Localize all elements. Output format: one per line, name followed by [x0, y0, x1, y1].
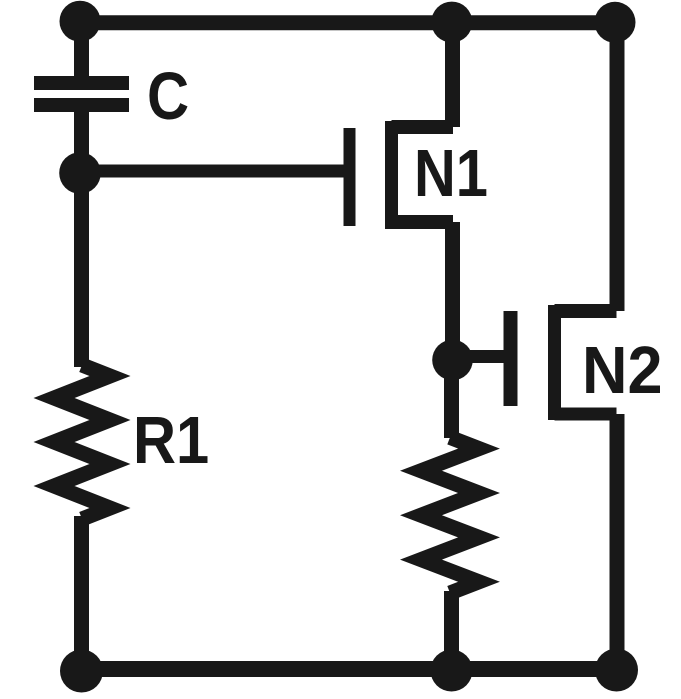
- wire: right rail upper (top rail to N2 drain): [610, 23, 625, 311]
- wire: N1 source to mid node: [445, 222, 460, 360]
- svg-text:N2: N2: [582, 333, 663, 408]
- wire: resistor to bottom rail: [444, 591, 459, 669]
- svg-text:R1: R1: [133, 403, 209, 478]
- svg-text:C: C: [147, 59, 189, 134]
- junction dot: mid node (N1 source / N2 gate / resistor): [432, 340, 473, 381]
- junction dot: top-middle (N1 drain): [431, 2, 472, 43]
- junction dot: top-right: [595, 2, 636, 43]
- wire: right rail lower (N2 source to bottom rail): [610, 414, 625, 669]
- resistor (unlabeled, N1 source to ground rail): [421, 437, 479, 593]
- transistor N1: [350, 121, 454, 229]
- wire: gate node to N1 gate: [81, 165, 345, 178]
- wire: left rail lower (R1 to bottom rail): [74, 516, 89, 669]
- wire: mid node to resistor: [444, 360, 459, 438]
- capacitor C: [34, 76, 129, 112]
- svg-text:N1: N1: [414, 136, 488, 211]
- wire: capacitor C to gate node: [74, 110, 89, 173]
- resistor R1: [54, 365, 110, 519]
- wire: bottom rail: [82, 661, 617, 677]
- wire: left rail middle (gate node to R1): [74, 173, 89, 367]
- wire: top rail: [82, 15, 617, 30]
- junction dot: bottom-right: [595, 649, 638, 692]
- junction dot: gate node (C / R1 / N1 gate): [59, 152, 101, 194]
- junction dot: bottom-left: [60, 650, 103, 693]
- wire: N2 gate to mid node: [453, 350, 505, 363]
- wire: left rail upper (top node to capacitor C): [74, 23, 89, 79]
- transistor N2: [511, 305, 617, 420]
- junction dot: top-left: [60, 1, 101, 42]
- wire: N1 drain to top rail: [445, 23, 460, 127]
- junction dot: bottom-middle: [431, 650, 473, 692]
